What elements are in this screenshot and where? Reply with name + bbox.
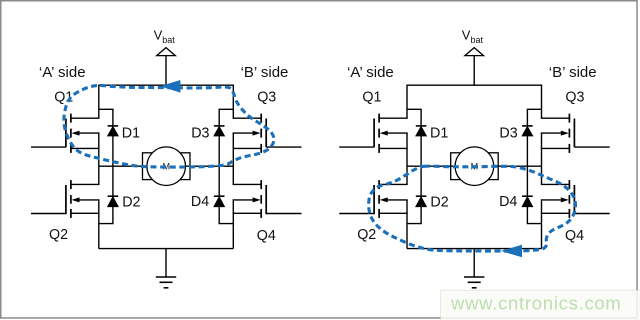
svg-text:Q4: Q4 <box>565 228 584 244</box>
wire D3 to mid node (right bridge) <box>526 136 528 166</box>
transistor Q2 channel (right bridge) <box>378 180 380 189</box>
transistor Q4 channel (right bridge) <box>568 180 570 189</box>
diode D4 (right bridge) <box>522 195 533 197</box>
wire Q2 gate lead (right bridge) <box>339 213 374 215</box>
wire D1 top jog (right bridge) <box>407 109 421 126</box>
wire Q4 source stub (left bridge) <box>233 212 262 214</box>
wire mid rail to motor (left bridge) <box>99 165 234 167</box>
wire Q1 gate lead (left bridge) <box>31 146 66 148</box>
wire Q1 drain stub (left bridge) <box>71 117 100 119</box>
wire D3 top jog (right bridge) <box>527 109 541 126</box>
svg-text:D1: D1 <box>122 125 140 141</box>
wire left mid vertical (Q1 source to Q2 drain) (left bridge) <box>98 133 100 184</box>
transistor Q1 gate plate (right bridge) <box>373 119 375 148</box>
wire Q1 body-arrow lead (left bridge) <box>79 132 100 134</box>
transistor Q4 channel (left bridge) <box>260 180 262 189</box>
wire Q3 body-arrow lead (right bridge) <box>541 132 562 134</box>
wire Q4 body-arrow lead (right bridge) <box>541 199 562 201</box>
ground (right bridge) <box>464 276 484 278</box>
svg-text:Q1: Q1 <box>362 89 381 105</box>
transistor Q3 channel (right bridge) <box>568 114 570 123</box>
transistor Q3 gate plate (left bridge) <box>265 119 267 148</box>
wire top rail (Vbat node) (left bridge) <box>99 84 234 86</box>
current loop (left bridge, high-side path) <box>64 85 274 167</box>
svg-text:D4: D4 <box>499 194 517 210</box>
motor frame (right bridge) <box>451 153 499 180</box>
transistor Q3 channel (left bridge) <box>260 114 262 123</box>
wire Q3 body-arrow lead (left bridge) <box>233 132 254 134</box>
motor frame (left bridge) <box>143 153 191 180</box>
wire Q3 drain stub (right bridge) <box>541 117 570 119</box>
wire Q3 drain stub (left bridge) <box>233 117 262 119</box>
wire Q4 gate lead (left bridge) <box>266 213 301 215</box>
wire Q4 source vertical to bottom rail (left bridge) <box>232 200 234 249</box>
diode D2 (right bridge) <box>416 195 427 197</box>
wire D1 top jog (left bridge) <box>99 109 113 126</box>
diode D4 (left bridge) <box>214 195 225 197</box>
diode D2 (left bridge) <box>108 195 119 197</box>
wire Q2 body-arrow lead (right bridge) <box>387 199 408 201</box>
wire bottom rail (left bridge) <box>99 248 234 250</box>
wire ground stem (right bridge) <box>473 249 475 277</box>
wire Q2 drain stub (left bridge) <box>71 183 100 185</box>
wire Q3 gate lead (left bridge) <box>266 146 301 148</box>
wire right mid vertical (Q3 source to Q4 drain) (left bridge) <box>232 133 234 184</box>
wire D3 top jog (left bridge) <box>219 109 233 126</box>
wire Q2 gate lead (left bridge) <box>31 213 66 215</box>
wire Q4 gate lead (right bridge) <box>574 213 609 215</box>
wire Q4 body-arrow lead (left bridge) <box>233 199 254 201</box>
wire mid rail to motor (right bridge) <box>407 165 542 167</box>
wire D2 verticals and jog (left bridge) <box>112 166 114 196</box>
diode D3 (right bridge) <box>522 125 533 127</box>
wire Q2 drain stub (right bridge) <box>379 183 408 185</box>
svg-text:D3: D3 <box>191 125 209 141</box>
transistor Q3 gate plate (right bridge) <box>573 119 575 148</box>
wire D3 to mid node (left bridge) <box>218 136 220 166</box>
wire D4 verticals and jog (right bridge) <box>526 166 528 196</box>
svg-text:D3: D3 <box>499 125 517 141</box>
wire Q1 gate lead (right bridge) <box>339 146 374 148</box>
svg-text:www.cntronics.com: www.cntronics.com <box>450 293 622 314</box>
svg-text:Q2: Q2 <box>49 227 68 243</box>
svg-text:Q3: Q3 <box>565 90 584 106</box>
wire Q2 body-arrow lead (left bridge) <box>79 199 100 201</box>
wire ground stem (left bridge) <box>165 249 167 277</box>
diode D3 (left bridge) <box>214 125 225 127</box>
wire right mid vertical (Q3 source to Q4 drain) (right bridge) <box>541 133 543 184</box>
power symbol Vbat triangle (right bridge) <box>465 48 484 56</box>
wire Q1 drain vertical (left bridge) <box>98 85 100 119</box>
svg-text:‘B’ side: ‘B’ side <box>241 64 289 81</box>
wire Vbat stem (right bridge) <box>473 56 475 86</box>
svg-text:‘A’ side: ‘A’ side <box>39 64 86 81</box>
transistor Q4 gate plate (right bridge) <box>573 185 575 214</box>
diode D1 (left bridge) <box>108 125 119 127</box>
wire Q4 drain stub (left bridge) <box>233 183 262 185</box>
wire Q2 source stub (right bridge) <box>379 212 408 214</box>
svg-text:‘B’ side: ‘B’ side <box>549 64 597 81</box>
transistor Q2 gate plate (right bridge) <box>373 185 375 214</box>
wire Q4 source vertical to bottom rail (right bridge) <box>541 200 543 249</box>
current loop (right bridge, low-side path) <box>369 166 576 251</box>
svg-text:D1: D1 <box>430 125 448 141</box>
transistor Q1 gate plate (left bridge) <box>65 119 67 148</box>
wire Q2 source vertical to bottom rail (left bridge) <box>98 200 100 249</box>
wire Q1 drain stub (right bridge) <box>379 117 408 119</box>
diode D1 (right bridge) <box>416 125 427 127</box>
svg-text:D4: D4 <box>191 194 209 210</box>
motor M1 circle (left bridge) <box>147 147 186 186</box>
wire top rail (Vbat node) (right bridge) <box>407 84 542 86</box>
wire left mid vertical (Q1 source to Q2 drain) (right bridge) <box>406 133 408 184</box>
transistor Q4 gate plate (left bridge) <box>265 185 267 214</box>
transistor Q1 channel (right bridge) <box>378 114 380 123</box>
wire D1 to mid node (right bridge) <box>420 136 422 166</box>
wire D4 verticals and jog (left bridge) <box>218 166 220 196</box>
wire Q4 source stub (right bridge) <box>541 212 570 214</box>
wire Q1 drain vertical (right bridge) <box>406 85 408 119</box>
current direction arrow (right bridge, bottom rail) <box>501 245 522 258</box>
wire Q2 source vertical to bottom rail (right bridge) <box>406 200 408 249</box>
wire D1 to mid node (left bridge) <box>112 136 114 166</box>
wire D2 verticals and jog (right bridge) <box>420 166 422 196</box>
wire Q1 source stub (right bridge) <box>379 147 408 149</box>
transistor Q2 gate plate (left bridge) <box>65 185 67 214</box>
wire Q4 drain stub (right bridge) <box>541 183 570 185</box>
svg-text:Q3: Q3 <box>257 90 276 106</box>
svg-text:‘A’ side: ‘A’ side <box>347 64 394 81</box>
svg-text:Q2: Q2 <box>357 227 376 243</box>
svg-text:Q4: Q4 <box>257 228 276 244</box>
transistor Q1 channel (left bridge) <box>70 114 72 123</box>
transistor Q2 channel (left bridge) <box>70 180 72 189</box>
wire bottom rail (right bridge) <box>407 248 542 250</box>
motor M1 circle (right bridge) <box>455 147 494 186</box>
wire Q3 gate lead (right bridge) <box>574 146 609 148</box>
ground (left bridge) <box>156 276 176 278</box>
wire Q1 source stub (left bridge) <box>71 147 100 149</box>
wire Q3 source stub (right bridge) <box>541 147 570 149</box>
wire Q3 drain vertical (left bridge) <box>232 85 234 119</box>
wire Q3 source stub (left bridge) <box>233 147 262 149</box>
current direction arrow (left bridge, top rail) <box>160 80 180 93</box>
wire Q2 source stub (left bridge) <box>71 212 100 214</box>
svg-text:D2: D2 <box>122 194 140 210</box>
svg-text:D2: D2 <box>430 194 448 210</box>
wire Q3 drain vertical (right bridge) <box>541 85 543 119</box>
wire Vbat stem (left bridge) <box>165 56 167 86</box>
power symbol Vbat triangle (left bridge) <box>157 48 176 56</box>
wire Q1 body-arrow lead (right bridge) <box>387 132 408 134</box>
watermark strip <box>441 290 640 320</box>
